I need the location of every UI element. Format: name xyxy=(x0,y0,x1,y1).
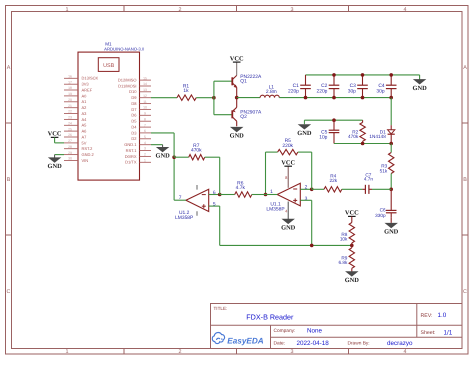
svg-text:C4: C4 xyxy=(378,83,385,89)
svg-text:A5: A5 xyxy=(82,123,88,128)
svg-text:C: C xyxy=(463,289,467,295)
label U1.1 LM358P xyxy=(266,202,284,213)
wire R1 to base node xyxy=(196,97,214,99)
inductor L1 xyxy=(260,95,279,97)
svg-text:21: 21 xyxy=(68,104,72,108)
svg-text:8: 8 xyxy=(144,117,146,121)
svg-text:A1: A1 xyxy=(82,99,88,104)
svg-text:22k: 22k xyxy=(330,178,338,183)
transistor Q2 PN2907A xyxy=(232,98,236,127)
node top bus at C4 xyxy=(389,73,393,77)
lead R8 bottom xyxy=(351,243,353,245)
node pin3 junction on rail xyxy=(310,244,314,248)
ground (arduino GND.1) xyxy=(155,147,170,159)
ground (detector top row) xyxy=(297,125,312,137)
svg-text:4.7n: 4.7n xyxy=(364,177,374,182)
node pin6/R6/R7 junction xyxy=(218,193,222,197)
node R2 bottom xyxy=(361,142,365,146)
label R3 51k xyxy=(380,163,388,173)
svg-text:GND: GND xyxy=(297,130,312,137)
svg-text:A6: A6 xyxy=(82,129,88,134)
svg-text:D10: D10 xyxy=(129,89,137,94)
svg-text:220p: 220p xyxy=(288,88,299,94)
wire D9 to R1 xyxy=(151,97,177,99)
arduino module M1 body xyxy=(78,52,140,180)
svg-text:TITLE:: TITLE: xyxy=(214,306,228,311)
wire R5 down to pin2 node xyxy=(311,152,313,189)
label C3 30p xyxy=(348,83,356,94)
resistor R9 zigzag xyxy=(349,248,354,269)
svg-text:D12/MISO: D12/MISO xyxy=(118,78,137,83)
wire GND.1 stub down xyxy=(162,145,164,148)
svg-text:51k: 51k xyxy=(380,168,388,173)
label L1 2.8m xyxy=(266,84,277,95)
svg-text:1: 1 xyxy=(66,7,69,13)
wire top bus to ground xyxy=(419,75,421,80)
svg-text:None: None xyxy=(307,328,323,335)
svg-text:VCC: VCC xyxy=(345,210,359,217)
svg-text:18: 18 xyxy=(68,86,72,90)
capacitor C2 220p xyxy=(329,75,340,98)
svg-text:D11/MOSI: D11/MOSI xyxy=(118,83,136,88)
pin 4 lead (GND) xyxy=(287,202,289,220)
lead R9 bottom xyxy=(351,268,353,271)
svg-text:Q1: Q1 xyxy=(240,78,247,84)
wire R3 to C7 node xyxy=(390,174,392,190)
wire D1 node to R3 xyxy=(390,144,392,153)
wire detector top row xyxy=(304,119,362,121)
lead R9 top xyxy=(351,245,353,247)
svg-text:30: 30 xyxy=(68,157,72,161)
svg-text:13: 13 xyxy=(143,88,147,92)
capacitor C7 4.7n xyxy=(362,185,372,194)
svg-text:5V: 5V xyxy=(82,140,87,145)
resistor R4 zigzag xyxy=(324,187,342,192)
ground (C6) xyxy=(384,223,399,235)
ground (U1.1 pin 4) xyxy=(281,219,296,231)
svg-text:9: 9 xyxy=(144,112,146,116)
arduino left pins (stubs, numbers 16-30, names) xyxy=(64,75,99,163)
label C6 330p xyxy=(375,208,386,218)
svg-text:B: B xyxy=(7,177,11,183)
node pin1/R5/R6 junction xyxy=(264,193,268,197)
svg-text:27: 27 xyxy=(68,139,72,143)
svg-text:D0/RX: D0/RX xyxy=(125,154,137,159)
svg-text:A2: A2 xyxy=(82,105,88,110)
svg-text:AREF: AREF xyxy=(82,87,93,92)
svg-text:Date:: Date: xyxy=(274,341,285,347)
svg-text:GND: GND xyxy=(47,163,62,170)
node D1 bottom xyxy=(389,142,393,146)
svg-text:1.0: 1.0 xyxy=(438,312,447,319)
wire D3 column down xyxy=(173,133,175,157)
wire R5 to pin1 node xyxy=(265,152,267,194)
svg-text:24: 24 xyxy=(68,122,72,126)
svg-text:GND.2: GND.2 xyxy=(82,152,95,157)
lead VCC to R8 xyxy=(351,216,353,222)
node C5 top xyxy=(332,118,336,122)
svg-text:22: 22 xyxy=(68,110,72,114)
frame column numbers xyxy=(66,7,407,355)
svg-text:19: 19 xyxy=(68,92,72,96)
wire GND.2 pin horizontal xyxy=(55,154,64,156)
EasyEDA logo xyxy=(212,333,264,346)
op-amp U1.1 LM358P xyxy=(277,183,300,206)
wire node to R7 xyxy=(174,156,189,158)
node top bus at C2 xyxy=(332,73,336,77)
svg-text:Sheet:: Sheet: xyxy=(421,330,436,336)
label D1 1N4148 xyxy=(369,129,386,138)
wire R5 right lead row xyxy=(298,151,312,153)
svg-text:A0: A0 xyxy=(82,93,88,98)
svg-text:FDX-B Reader: FDX-B Reader xyxy=(246,312,294,321)
wire L1 to C1 bottom bus xyxy=(279,97,305,99)
label C2 220p xyxy=(317,83,328,94)
resistor R6 zigzag xyxy=(235,192,252,197)
label Q1 PN2222A xyxy=(240,74,262,85)
node R3/C7/C6 junction xyxy=(389,188,393,192)
svg-text:2: 2 xyxy=(179,349,182,355)
svg-text:330p: 330p xyxy=(375,213,386,218)
svg-text:GND: GND xyxy=(230,133,245,140)
node pin2/R5 junction xyxy=(310,188,314,192)
svg-text:GND: GND xyxy=(281,225,296,232)
svg-text:A4: A4 xyxy=(82,117,88,122)
wire C4 node down to D1 xyxy=(390,98,392,126)
svg-text:C2: C2 xyxy=(321,83,328,89)
lead C6 to ground xyxy=(390,218,392,223)
frame row letters xyxy=(7,65,468,295)
wire C7 to R3/C6 node xyxy=(372,188,391,190)
label C7 4.7n xyxy=(364,172,374,181)
svg-text:470k: 470k xyxy=(191,148,202,154)
svg-text:D4: D4 xyxy=(131,125,137,130)
wire pin1 output xyxy=(266,194,278,196)
svg-text:6.8k: 6.8k xyxy=(339,260,349,265)
svg-text:A: A xyxy=(463,65,467,71)
arduino right pins (stubs, numbers 15-1, names) xyxy=(118,76,151,164)
resistor R7 zigzag xyxy=(189,155,205,160)
svg-text:4: 4 xyxy=(404,349,407,355)
wire top bus of tank caps xyxy=(306,74,420,76)
node R8/R9 junction xyxy=(350,244,354,248)
svg-text:3: 3 xyxy=(305,196,308,202)
resistor R1 zigzag xyxy=(177,95,196,100)
diode D1 1N4148 xyxy=(388,125,395,143)
capacitor C4 30p xyxy=(386,75,397,98)
capacitor C1 220p xyxy=(300,75,311,98)
svg-text:1k: 1k xyxy=(183,88,189,94)
svg-text:220k: 220k xyxy=(282,143,293,149)
svg-text:30p: 30p xyxy=(348,88,356,94)
svg-text:EasyEDA: EasyEDA xyxy=(227,336,263,345)
svg-text:A3: A3 xyxy=(82,111,88,116)
wire pin5 right xyxy=(209,205,220,207)
label Q2 PN2907A xyxy=(240,110,262,121)
svg-text:A: A xyxy=(7,65,11,71)
node D3/R7/pin7 junction xyxy=(172,155,176,159)
wire down to ground stub xyxy=(303,120,305,124)
frame row ticks xyxy=(6,123,469,235)
svg-text:11: 11 xyxy=(143,100,147,104)
svg-text:1N4148: 1N4148 xyxy=(369,134,386,139)
wire GND.2 stub down xyxy=(54,155,56,158)
svg-text:10: 10 xyxy=(143,106,147,110)
label R6 4.7k xyxy=(236,180,246,191)
svg-text:16: 16 xyxy=(68,75,72,79)
label R2 470k xyxy=(348,129,359,138)
svg-text:decrazyo: decrazyo xyxy=(387,340,413,347)
ground (Q2 collector) xyxy=(230,127,245,139)
power flag VCC (Q1 collector) xyxy=(230,55,244,62)
svg-text:10p: 10p xyxy=(319,134,327,140)
svg-text:4.7k: 4.7k xyxy=(236,185,246,191)
lead R2 top xyxy=(362,120,364,122)
svg-text:17: 17 xyxy=(68,80,72,84)
svg-text:1: 1 xyxy=(144,159,146,163)
svg-text:USB: USB xyxy=(103,63,114,69)
svg-text:15: 15 xyxy=(143,76,147,80)
svg-text:4: 4 xyxy=(404,7,407,13)
svg-text:D1/TX: D1/TX xyxy=(125,160,137,165)
svg-text:VIN: VIN xyxy=(82,158,89,163)
svg-text:GND: GND xyxy=(155,153,170,160)
wire pin3 right xyxy=(300,199,311,201)
label R9 6.8k xyxy=(339,256,349,265)
svg-text:14: 14 xyxy=(143,82,147,86)
svg-text:LM358P: LM358P xyxy=(175,215,193,221)
svg-text:25: 25 xyxy=(68,127,72,131)
svg-text:2.8m: 2.8m xyxy=(266,89,277,95)
power flag VCC (arduino 5V) xyxy=(48,131,62,138)
svg-text:1/1: 1/1 xyxy=(444,329,453,336)
svg-text:Drawn By:: Drawn By: xyxy=(348,341,370,347)
svg-text:2: 2 xyxy=(179,7,182,13)
wire pin2 to R4 xyxy=(300,188,311,190)
svg-text:A7: A7 xyxy=(82,134,88,139)
wire pin7 output xyxy=(174,199,186,201)
svg-text:D5: D5 xyxy=(131,119,137,124)
svg-text:RST.2: RST.2 xyxy=(82,146,94,151)
svg-text:D3: D3 xyxy=(131,130,137,135)
label U1.2 LM358P xyxy=(175,210,193,221)
svg-text:LM358P: LM358P xyxy=(266,206,284,212)
label C5 10p xyxy=(319,129,327,140)
ground (tank cap bus) xyxy=(412,80,427,92)
wire D3 pin to column xyxy=(151,132,174,134)
svg-text:D13/SCK: D13/SCK xyxy=(82,76,99,81)
svg-text:VCC: VCC xyxy=(230,55,244,62)
resistor R8 zigzag xyxy=(349,223,354,244)
wire GND.1 pin xyxy=(151,144,163,146)
wire to Q2 base xyxy=(214,114,232,116)
capacitor C5 10p xyxy=(329,120,340,143)
svg-text:D8: D8 xyxy=(131,101,137,106)
svg-text:26: 26 xyxy=(68,133,72,137)
svg-text:4: 4 xyxy=(144,141,146,145)
label R8 10k xyxy=(340,232,348,241)
svg-text:C: C xyxy=(7,289,11,295)
svg-text:C1: C1 xyxy=(293,83,300,89)
svg-text:Q2: Q2 xyxy=(240,114,247,120)
wire R4 to C7 xyxy=(342,188,363,190)
wire to R4 xyxy=(312,188,324,190)
node top bus at C3 xyxy=(361,73,365,77)
svg-text:3: 3 xyxy=(291,7,294,13)
wire pin3 down to bottom rail xyxy=(311,200,313,245)
svg-text:12: 12 xyxy=(143,94,147,98)
ground (arduino GND.2) xyxy=(47,158,62,170)
svg-text:C3: C3 xyxy=(350,83,357,89)
svg-text:470k: 470k xyxy=(348,134,359,139)
svg-text:GND: GND xyxy=(412,85,427,92)
svg-text:GND: GND xyxy=(384,229,399,236)
wire pin6 to node xyxy=(209,194,220,196)
label C1 220p xyxy=(288,83,299,94)
node bottom bus at C3 xyxy=(361,96,365,100)
resistor R3 zigzag xyxy=(389,153,394,174)
svg-text:23: 23 xyxy=(68,116,72,120)
svg-text:B: B xyxy=(463,177,467,183)
svg-text:VCC: VCC xyxy=(281,159,295,166)
svg-text:3: 3 xyxy=(291,349,294,355)
label R4 22k xyxy=(330,174,338,183)
wire bottom bus of tank caps xyxy=(306,97,392,99)
wire R7 down to pin6 node xyxy=(219,157,221,194)
svg-text:2: 2 xyxy=(144,153,146,157)
node emitter junction xyxy=(235,96,239,100)
power flag VCC (U1.1 pin 8) xyxy=(281,159,295,166)
svg-text:GND: GND xyxy=(345,277,360,284)
wire VCC to 5V pin horizontal xyxy=(55,142,64,144)
svg-text:3V3: 3V3 xyxy=(82,82,90,87)
wire detector bottom row xyxy=(334,143,391,145)
capacitor C6 330p xyxy=(386,189,397,217)
resistor R5 zigzag xyxy=(278,149,298,154)
svg-text:ARDUINO-NANO-3.0: ARDUINO-NANO-3.0 xyxy=(104,46,145,51)
wire R7 right xyxy=(205,156,220,158)
svg-text:20: 20 xyxy=(68,98,72,102)
arduino USB connector box xyxy=(98,58,119,72)
title block outline xyxy=(211,304,463,349)
node bottom bus at C4 xyxy=(389,96,393,100)
wire bottom rail xyxy=(220,244,352,246)
svg-text:3: 3 xyxy=(144,147,146,151)
label C4 30p xyxy=(376,83,384,94)
svg-text:29: 29 xyxy=(68,151,72,155)
svg-text:220p: 220p xyxy=(317,88,328,94)
svg-text:D9: D9 xyxy=(131,95,137,100)
pin 8 lead (VCC) xyxy=(287,166,289,188)
frame column ticks xyxy=(124,6,349,355)
node base-drive junction xyxy=(212,96,216,100)
power flag VCC (R8 top) xyxy=(345,210,359,217)
svg-text:RST.1: RST.1 xyxy=(126,148,138,153)
svg-text:D6: D6 xyxy=(131,113,137,118)
svg-text:7: 7 xyxy=(144,123,146,127)
label R1 1k xyxy=(183,83,190,94)
svg-text:Company:: Company: xyxy=(274,328,296,334)
capacitor C3 30p xyxy=(357,75,368,98)
wire R6 to pin1 node xyxy=(252,194,266,196)
svg-text:D2: D2 xyxy=(131,136,137,141)
svg-text:REV:: REV: xyxy=(421,313,433,319)
svg-text:30p: 30p xyxy=(376,88,384,94)
svg-text:2022-04-18: 2022-04-18 xyxy=(297,340,330,347)
ground (R9) xyxy=(345,272,360,284)
wire pin5 down to bottom rail xyxy=(219,206,221,245)
wire pin6 node to R6 xyxy=(220,194,235,196)
svg-text:10k: 10k xyxy=(340,236,348,241)
svg-text:6: 6 xyxy=(144,129,146,133)
svg-text:GND.1: GND.1 xyxy=(124,142,137,147)
resistor R2 zigzag xyxy=(360,122,365,141)
wire R5 left lead row xyxy=(266,151,278,153)
wire pin7 up to R7 node xyxy=(173,157,175,200)
svg-text:D7: D7 xyxy=(131,107,137,112)
transistor Q1 PN2222A xyxy=(232,62,237,98)
wire base column vertical xyxy=(213,81,215,115)
node bottom bus at C1 xyxy=(304,96,308,100)
svg-text:VCC: VCC xyxy=(48,131,62,138)
node bottom bus at C2 xyxy=(332,96,336,100)
svg-text:5: 5 xyxy=(144,135,146,139)
label R5 220k xyxy=(282,138,293,149)
wire emitters to L1 xyxy=(237,97,260,99)
wire VCC to 5V pin vertical xyxy=(54,137,56,143)
op-amp U1.2 LM358P xyxy=(186,185,209,216)
label R7 470k xyxy=(191,143,202,154)
svg-text:1: 1 xyxy=(66,349,69,355)
wire to Q1 base xyxy=(214,80,232,82)
lead R2 bottom xyxy=(362,141,364,143)
svg-text:28: 28 xyxy=(68,145,72,149)
